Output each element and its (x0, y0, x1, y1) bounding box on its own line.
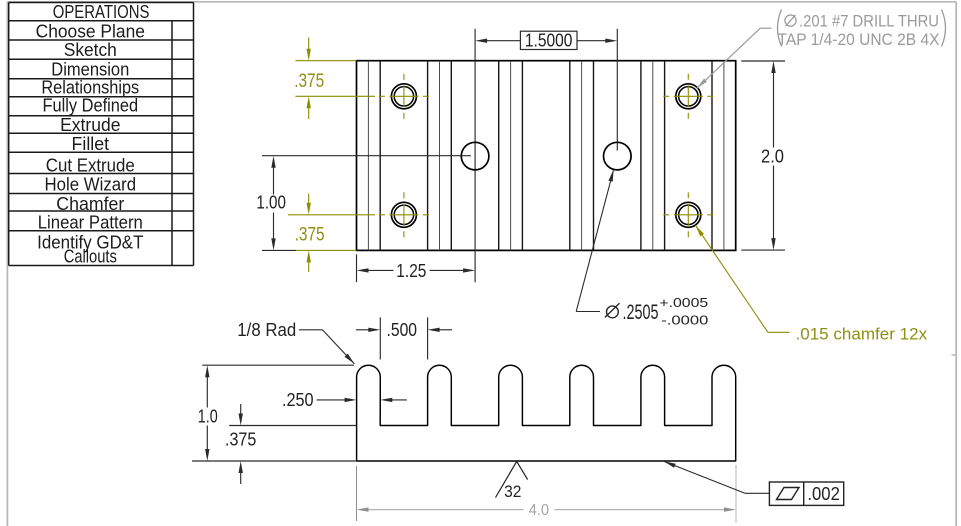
svg-text:.015 chamfer 12x: .015 chamfer 12x (796, 325, 928, 344)
svg-text:.500: .500 (387, 320, 418, 340)
svg-text:1.25: 1.25 (396, 261, 426, 281)
svg-text:Hole Wizard: Hole Wizard (45, 173, 137, 194)
svg-text:32: 32 (504, 482, 521, 501)
svg-text:1/8 Rad: 1/8 Rad (237, 320, 296, 340)
svg-text:Fillet: Fillet (72, 133, 110, 154)
svg-text:Fully Defined: Fully Defined (42, 94, 138, 115)
svg-text:+.0005: +.0005 (659, 296, 708, 310)
svg-text:Sketch: Sketch (64, 39, 117, 60)
svg-text:1.0: 1.0 (198, 407, 218, 427)
svg-text:.2505: .2505 (623, 301, 659, 324)
svg-text:Callouts: Callouts (64, 245, 117, 266)
svg-text:4.0: 4.0 (529, 502, 550, 519)
svg-text:1.5000: 1.5000 (525, 30, 573, 50)
svg-text:.375: .375 (295, 225, 325, 246)
svg-text:.375: .375 (225, 429, 256, 449)
svg-text:-.0000: -.0000 (661, 313, 708, 327)
svg-text:1.00: 1.00 (256, 192, 286, 212)
svg-text:2.0: 2.0 (761, 146, 784, 166)
svg-text:OPERATIONS: OPERATIONS (53, 1, 150, 22)
svg-text:.250: .250 (282, 390, 314, 410)
svg-text:.002: .002 (807, 484, 840, 504)
svg-text:TAP 1/4-20 UNC 2B 4X: TAP 1/4-20 UNC 2B 4X (778, 31, 940, 49)
svg-text:.201 #7 DRILL THRU: .201 #7 DRILL THRU (799, 13, 939, 31)
svg-text:Linear Pattern: Linear Pattern (38, 212, 143, 233)
svg-text:.375: .375 (294, 71, 324, 92)
